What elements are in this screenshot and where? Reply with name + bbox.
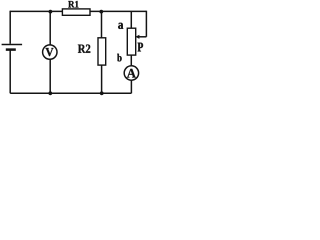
wire: top bus bbox=[10, 10, 146, 12]
voltmeter V bbox=[43, 45, 57, 59]
wire: ammeter to bottom bus bbox=[130, 80, 132, 93]
node: junction dot voltmeter branch to bottom bus bbox=[48, 91, 52, 95]
label P bbox=[138, 43, 143, 52]
potentiometer P (vertical box) bbox=[127, 28, 135, 55]
battery cell bbox=[2, 45, 23, 50]
wire: from P terminal b down to ammeter bbox=[130, 55, 132, 66]
label b (bottom terminal) bbox=[117, 54, 121, 62]
wire: left vertical from battery down to bottom bus bbox=[9, 51, 11, 94]
label R2 bbox=[78, 45, 90, 53]
node: junction dot of voltmeter tap on top bus bbox=[49, 10, 53, 14]
resistor R2 (vertical box) bbox=[98, 38, 106, 65]
wiper arrowhead pointing left into P bbox=[135, 35, 139, 39]
wire: voltmeter branch lower segment bbox=[49, 59, 51, 93]
wire: R2 branch lower segment bbox=[101, 65, 103, 93]
node: junction dot R2 branch to bottom bus bbox=[100, 91, 104, 95]
wire: voltmeter branch upper segment bbox=[49, 11, 51, 45]
wire: right vertical from top bus down to wiper arm bbox=[145, 11, 147, 37]
ammeter A bbox=[124, 66, 138, 80]
resistor R1 (box in top bus) bbox=[62, 9, 90, 15]
wire: R2 branch upper segment bbox=[101, 11, 103, 37]
label a (top terminal) bbox=[118, 23, 123, 29]
node: junction dot of R2 tap on top bus bbox=[99, 10, 103, 14]
wire: potentiometer top lead (terminal a) bbox=[130, 11, 132, 28]
wire: left vertical from top bus down to battery bbox=[9, 11, 11, 44]
label R1 bbox=[68, 1, 78, 8]
wire: wiper arm horizontal bbox=[139, 36, 147, 38]
wire: bottom bus bbox=[10, 92, 131, 94]
